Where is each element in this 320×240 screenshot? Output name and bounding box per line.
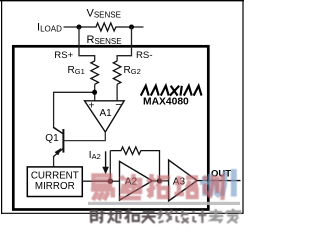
frame left line [1,0,3,214]
watermark bottom text zhuan jia [209,209,240,223]
frame top line [0,0,244,2]
node RS+ junction dot [77,25,82,30]
svg-text:RG2: RG2 [124,65,141,76]
resistor RSENSE [79,23,132,31]
svg-text:IA2: IA2 [89,150,101,161]
wire node to A2 input [110,180,119,182]
wire RS- stub right [132,26,144,28]
wire RS- into box [117,27,131,61]
svg-text:Q1: Q1 [45,133,59,144]
amplifier A2 [120,161,153,200]
wire RG2 to A1 - input [116,84,118,101]
node A2 output junction dot [157,178,162,183]
node RS- junction dot [129,25,134,30]
resistor A2 feedback [110,147,159,181]
watermark blue characters [200,169,234,197]
op-amp A1 [85,99,125,132]
watermark bottom text she pin he tian xian she ji [91,209,156,223]
logo MAXIM [141,86,202,96]
svg-text:MAX4080: MAX4080 [143,97,189,108]
wire OUT [197,180,241,182]
svg-text:MIRROR: MIRROR [35,181,75,192]
IC boundary box MAX4080 [13,46,208,209]
svg-text:A1: A1 [100,108,113,119]
wire RS+ into box [79,27,95,61]
current mirror block [27,167,82,197]
wire ILOAD to RS+ node [64,26,80,28]
watermark red characters yi di tuo pei xun [91,174,223,200]
wire current mirror output [82,180,110,182]
wire A1 output to Q1 base [64,132,105,141]
wire A2 output to A3 [152,180,168,182]
svg-text:RG1: RG1 [68,65,85,76]
frame bottom line [1,212,244,214]
wire feedback from Q1 collector to A1 + input [54,92,95,134]
svg-text:RS-: RS- [136,50,153,61]
node A1 + input junction dot [92,90,97,95]
current arrow IA2 [102,151,109,174]
frame right line [242,0,244,214]
watermark gray underline [88,202,240,205]
wire RG1 to A1 + input [94,84,96,101]
svg-text:−: − [115,99,121,111]
transistor Q1 [53,127,64,156]
amplifier A3 [169,160,197,201]
wire Q1 emitter to current mirror [53,156,55,167]
svg-text:+: + [88,100,94,112]
node A2 input junction dot [108,179,113,184]
resistor RG1 [91,61,99,84]
wire A2 feedback left drop [109,151,111,182]
svg-text:RS+: RS+ [54,50,73,61]
resistor RG2 [113,61,121,84]
